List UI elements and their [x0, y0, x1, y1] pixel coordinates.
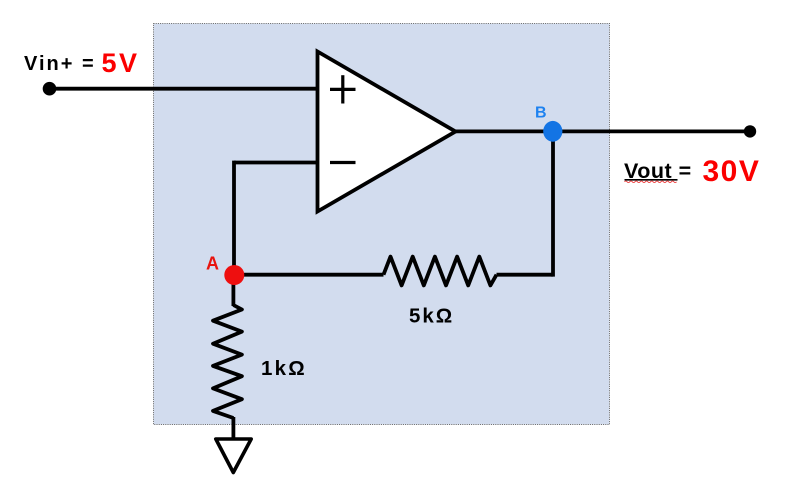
ground symbol [216, 439, 251, 473]
spellcheck squiggle under Vout [625, 181, 677, 183]
label 5k ohm [409, 305, 454, 328]
resistor R1 1k zigzag [213, 305, 242, 418]
label node A [206, 254, 219, 274]
op-amp plus sign [330, 75, 356, 103]
wire 1k resistor to ground [231, 417, 235, 441]
svg-text:B: B [535, 105, 547, 122]
resistor R2 5k zigzag [384, 257, 497, 286]
wire node A vertical [232, 161, 236, 275]
node B junction dot [543, 121, 562, 142]
wire Vin+ input [49, 87, 318, 91]
input terminal dot [43, 82, 57, 96]
svg-text:1kΩ: 1kΩ [261, 357, 307, 380]
node A junction dot [224, 265, 244, 285]
svg-text:5V: 5V [102, 48, 140, 78]
label Vout [624, 159, 692, 183]
dashed enclosure box [154, 24, 610, 425]
label 1k ohm [261, 357, 307, 380]
svg-text:A: A [206, 254, 219, 274]
wire 5k resistor to corner [497, 273, 554, 277]
op-amp U1 triangle [318, 52, 456, 212]
label node B [535, 105, 547, 122]
output terminal dot [744, 125, 756, 137]
label Vin+ [24, 53, 96, 75]
wire node A to 5k resistor [234, 273, 384, 277]
wire inverting input [234, 161, 319, 165]
underline under Vout [625, 179, 678, 181]
wire feedback vertical to node B [551, 131, 555, 276]
op-amp minus sign [330, 161, 356, 164]
svg-text:30V: 30V [703, 155, 761, 188]
wire output [455, 129, 750, 133]
svg-text:5kΩ: 5kΩ [409, 305, 454, 328]
wire node A to 1k resistor [231, 275, 235, 306]
svg-text:Vin+ =: Vin+ = [24, 53, 96, 75]
label 5V value [102, 48, 140, 78]
label 30V value [703, 155, 761, 188]
